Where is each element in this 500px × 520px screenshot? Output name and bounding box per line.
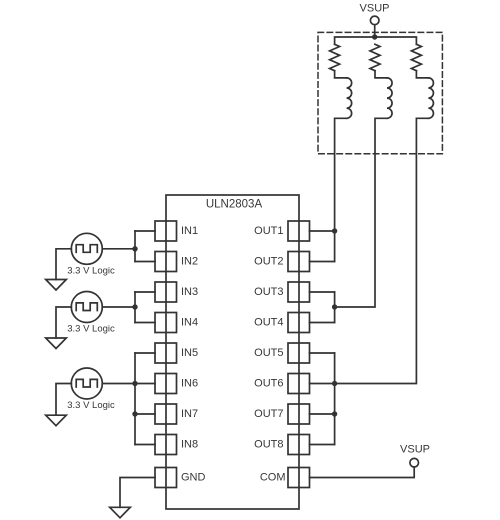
wire IN5-IN8 tie [134,353,136,445]
svg-text:IN2: IN2 [181,256,198,268]
pin OUT8 [254,435,309,455]
wire OUT3-OUT4 tie [334,292,336,323]
wire GND pin to ground [120,478,155,508]
svg-text:OUT7: OUT7 [254,408,283,420]
pin IN2 [155,252,198,272]
inductor load 1 [347,78,352,118]
ground (source 3) [46,415,67,426]
svg-text:IN1: IN1 [181,225,198,237]
wire OUT6 stub [310,383,335,385]
svg-text:3.3 V Logic: 3.3 V Logic [67,400,115,411]
svg-text:COM: COM [260,472,286,484]
svg-text:IN4: IN4 [181,317,198,329]
load enclosure dashed box [318,32,442,153]
svg-text:ULN2803A: ULN2803A [206,199,263,211]
node source1 junction [132,246,137,251]
ground (source 2) [46,338,67,349]
wire IN1 stub [135,230,155,232]
ground (GND pin) [110,507,131,518]
node OUT7 junction [332,411,337,416]
wire OUT3 stub [310,291,335,293]
wire resistor 2 to inductor 2 [375,71,387,78]
pulse source V2 [71,292,102,323]
node OUT1 load junction [332,228,337,233]
svg-text:3.3 V Logic: 3.3 V Logic [67,265,115,276]
wire IN3 stub [135,291,155,293]
wire IN6 stub [135,383,155,385]
wire IN4 stub [135,322,155,324]
wire OUT1-OUT2 tie [334,231,336,262]
resistor load 1 [330,44,340,70]
inductor load 3 [428,78,433,118]
svg-text:OUT6: OUT6 [254,378,283,390]
svg-text:IN5: IN5 [181,347,198,359]
wire OUT8 stub [310,444,335,446]
svg-text:OUT1: OUT1 [254,225,283,237]
wire IN2 stub [135,261,155,263]
svg-text:IN7: IN7 [181,408,198,420]
op IC U1 ULN2803A body [166,195,299,509]
pulse source V3 [71,368,102,399]
wire source2 to ground [56,307,71,338]
inductor load 2 [387,78,392,118]
node source3 junction [132,381,137,386]
pin IN5 [155,343,198,363]
wire IN3-IN4 tie [134,292,136,323]
wire resistor 3 to inductor 3 [416,71,428,78]
svg-text:OUT3: OUT3 [254,286,283,298]
pin OUT7 [254,404,309,424]
pin OUT6 [254,374,309,394]
pin IN3 [155,282,198,302]
pin OUT5 [254,343,309,363]
svg-text:3.3 V Logic: 3.3 V Logic [67,324,115,335]
wire source1 to IN1/IN2 [102,248,135,250]
wire inductor 1 exit [335,118,347,231]
svg-text:OUT8: OUT8 [254,439,283,451]
wire IN1-IN2 tie [134,231,136,262]
svg-text:OUT2: OUT2 [254,256,283,268]
pin OUT4 [254,313,309,333]
pin IN4 [155,313,198,333]
wire OUT5 stub [310,352,335,354]
svg-text:IN8: IN8 [181,439,198,451]
node VSUP bus junction [372,34,377,39]
pin IN8 [155,435,198,455]
svg-text:OUT4: OUT4 [254,317,283,329]
wire OUT4 stub [310,322,335,324]
svg-text:VSUP: VSUP [360,3,390,15]
pin IN1 [155,221,198,241]
svg-text:VSUP: VSUP [400,444,430,456]
resistor load 3 [411,44,421,70]
pin GND [155,468,206,488]
node IN7 junction [132,411,137,416]
wire source1 to ground [56,249,71,280]
wire inductor 3 to OUT5-OUT8 node [335,118,429,383]
ground (source 1) [46,280,67,291]
resistor load 2 [370,44,380,70]
svg-text:GND: GND [181,472,206,484]
pin OUT3 [254,282,309,302]
node source2 junction [132,304,137,309]
svg-text:IN3: IN3 [181,286,198,298]
wire source2 to IN3/IN4 [102,306,135,308]
terminal VSUP (bottom, open circle) [410,458,419,467]
wire source3 to ground [56,384,71,416]
wire IN7 stub [135,413,155,415]
terminal VSUP (top, open circle) [370,16,379,25]
wire COM to VSUP terminal [310,467,415,478]
svg-text:OUT5: OUT5 [254,347,283,359]
node OUT3/OUT4 load junction [332,304,337,309]
pin IN6 [155,374,198,394]
pin OUT1 [254,221,309,241]
wire inductor 2 to OUT3/OUT4 node [335,118,387,307]
wire OUT5-OUT8 tie [334,353,336,445]
svg-text:IN6: IN6 [181,378,198,390]
wire OUT1 stub [310,230,335,232]
wire OUT7 stub [310,413,335,415]
pulse source V1 [71,233,102,264]
wire VSUP terminal to bus [374,25,376,37]
node OUT6 load junction [332,381,337,386]
pin COM [260,468,310,488]
wire supply bus [335,37,417,44]
pin IN7 [155,404,198,424]
pin OUT2 [254,252,309,272]
wire IN8 stub [135,444,155,446]
wire resistor 1 to inductor 1 [335,71,347,78]
wire source3 to IN5-IN8 [102,383,135,385]
wire OUT2 stub [310,261,335,263]
wire IN5 stub [135,352,155,354]
